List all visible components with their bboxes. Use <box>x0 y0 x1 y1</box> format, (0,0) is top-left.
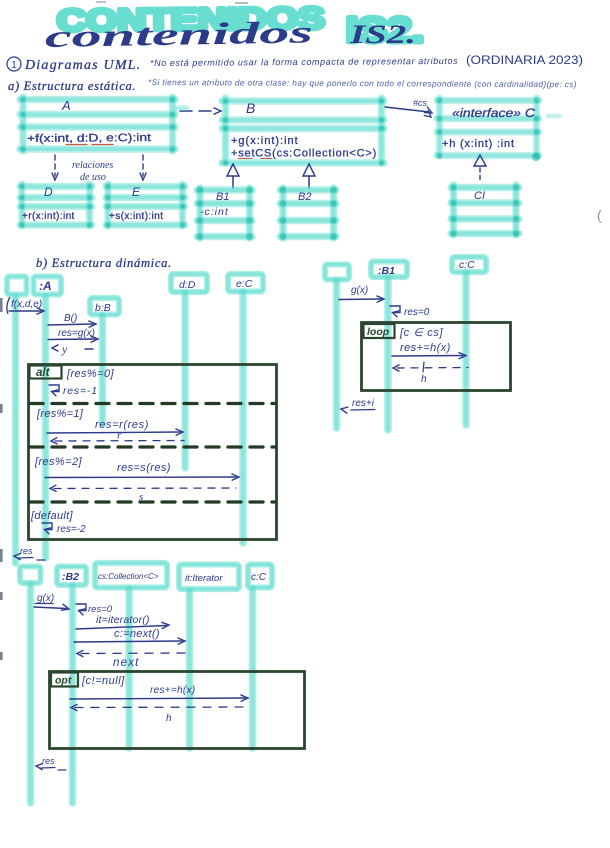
seq3 it lifeline <box>186 591 194 748</box>
seq3 cs:Collection box <box>95 563 167 588</box>
title highlighter CONTENIDOS <box>57 1 424 50</box>
generalization triangle B1 to B <box>227 164 239 188</box>
seq1 return res <box>14 546 45 560</box>
class B2 box <box>280 187 337 240</box>
svg-text:res: res <box>20 546 33 556</box>
seq3 opt fragment frame <box>50 672 305 749</box>
realization triangle under C <box>474 155 486 181</box>
seq1 return s <box>50 485 236 503</box>
seq1 d:D box <box>171 274 207 292</box>
seq2 return h <box>393 362 468 385</box>
class B methods <box>231 135 377 160</box>
class C interface box <box>437 98 539 158</box>
seq1 unnamed actor box <box>7 277 27 295</box>
generalization triangle B2 to B <box>303 164 315 188</box>
seq2 loop fragment frame <box>362 323 511 391</box>
svg-text:cs:Collection<C>: cs:Collection<C> <box>98 572 159 581</box>
svg-text:A: A <box>61 98 71 113</box>
seq3 :B2 box <box>57 567 86 586</box>
class E box <box>105 184 185 228</box>
seq1 alt divider 3 <box>30 500 275 503</box>
svg-text:CI: CI <box>474 190 485 202</box>
seq1 return r <box>51 430 184 444</box>
svg-text:r: r <box>117 430 122 442</box>
class A box <box>20 97 175 152</box>
seq1 e:C lifeline <box>239 292 247 543</box>
seq3 c:C lifeline <box>249 589 257 748</box>
svg-text:B: B <box>246 100 255 116</box>
svg-text:+setCS(cs:Collection<C>): +setCS(cs:Collection<C>) <box>231 148 377 160</box>
seq1 alt fragment frame <box>29 365 277 540</box>
svg-text:h: h <box>421 374 427 385</box>
seq1 message B() create <box>48 313 96 327</box>
seq1 return y <box>52 342 93 356</box>
seq1 message res=s(res) <box>45 462 239 480</box>
seq2 return res+i <box>341 398 375 413</box>
seq1 alt divider 2 <box>30 445 275 448</box>
svg-text:loop: loop <box>367 326 390 338</box>
svg-text:de uso: de uso <box>80 172 106 183</box>
seq3 unnamed lifeline <box>27 584 35 803</box>
marker smudge right of A <box>177 105 187 111</box>
svg-text:h: h <box>166 713 172 724</box>
svg-text:1: 1 <box>11 60 17 71</box>
svg-text:res=g(x): res=g(x) <box>58 328 95 339</box>
seq3 cs lifeline <box>125 589 133 748</box>
svg-text:+f(x:int, d:D, e:C):int: +f(x:int, d:D, e:C):int <box>27 132 151 145</box>
svg-text:#cs: #cs <box>413 98 428 108</box>
title pen contenidos IS2 <box>45 14 416 54</box>
svg-text:res=r(res): res=r(res) <box>95 419 149 431</box>
class B box <box>222 98 384 166</box>
svg-text:e:C: e:C <box>236 278 253 290</box>
seq3 message c:=next() <box>74 628 185 644</box>
svg-text:opt: opt <box>55 675 72 687</box>
pencil tick top <box>96 1 106 3</box>
seq2 self message res=0 <box>390 306 430 318</box>
dashed dependency arrow A to B <box>180 108 221 114</box>
svg-text:relaciones: relaciones <box>72 160 113 171</box>
svg-text:D: D <box>44 185 53 199</box>
svg-text:res+=h(x): res+=h(x) <box>150 685 196 696</box>
class CI box <box>451 185 519 237</box>
seq2 message g(x) <box>339 285 384 302</box>
svg-text:g(x): g(x) <box>37 593 54 604</box>
svg-text:it:Iterator: it:Iterator <box>185 573 223 584</box>
seq3 self message res=0 <box>76 604 113 615</box>
class A method +f <box>27 132 151 145</box>
seq1 alt divider 1 <box>30 402 275 405</box>
svg-text:res+i: res+i <box>352 398 375 409</box>
svg-text:B(): B() <box>64 313 77 324</box>
seq1 :A lifeline <box>42 297 50 558</box>
svg-text:IS2.: IS2. <box>349 20 416 49</box>
svg-text:alt: alt <box>36 367 51 379</box>
svg-text:Diagramas UML.: Diagramas UML. <box>24 58 141 73</box>
seq1 unnamed lifeline <box>12 297 20 563</box>
marker smudge right of C <box>548 113 560 119</box>
svg-text:[default]: [default] <box>30 510 73 522</box>
svg-text:+s(x:int):int: +s(x:int):int <box>109 211 163 222</box>
svg-text:d:D: d:D <box>179 279 196 291</box>
svg-text:res+=h(x): res+=h(x) <box>400 342 451 354</box>
svg-text:it=iterator(): it=iterator() <box>96 614 150 626</box>
seq3 message it=iterator() <box>76 614 169 629</box>
seq3 return h <box>71 704 247 724</box>
svg-text:res=0: res=0 <box>404 307 430 318</box>
svg-text:[res%=0]: [res%=0] <box>66 368 114 380</box>
svg-text:res=s(res): res=s(res) <box>117 462 171 474</box>
svg-text:[c!=null]: [c!=null] <box>81 675 125 687</box>
seq3 return next <box>77 650 186 669</box>
svg-text::B2: :B2 <box>62 571 79 583</box>
seq3 unnamed actor box <box>20 567 41 584</box>
svg-text:c:C: c:C <box>459 259 475 271</box>
seq1 self message res=-2 <box>42 523 86 535</box>
svg-text:y: y <box>61 342 68 356</box>
svg-text:+r(x:int):int: +r(x:int):int <box>22 211 75 222</box>
seq1 :A box <box>34 277 62 295</box>
svg-text:a) Estructura estática.: a) Estructura estática. <box>8 79 136 93</box>
svg-text:c:=next(): c:=next() <box>114 628 160 640</box>
seq1 message f(x,d,e) <box>7 297 44 314</box>
dashed use arrow A to E <box>140 155 146 180</box>
seq2 message res+=h(x) <box>392 342 466 359</box>
dashed use arrow A to D <box>52 155 58 180</box>
svg-text:res=-1: res=-1 <box>63 385 98 397</box>
seq2 unnamed actor box <box>325 265 349 280</box>
svg-text:res=-2: res=-2 <box>57 524 86 535</box>
seq2 :B1 lifeline <box>384 278 392 430</box>
label relaciones de uso <box>72 160 113 183</box>
svg-text:(ORDINARIA 2023): (ORDINARIA 2023) <box>466 55 583 67</box>
seq3 c:C box <box>248 565 272 588</box>
seq1 d:D lifeline <box>181 293 189 468</box>
seq1 b:B lifeline <box>99 316 107 424</box>
seq3 message g(x) <box>34 593 69 610</box>
seq3 message res+=h(x) <box>70 685 248 701</box>
svg-text:c:C: c:C <box>251 572 267 583</box>
svg-text:[res%=1]: [res%=1] <box>36 408 84 420</box>
seq1 message res=g(x) <box>48 328 98 342</box>
item 1 Diagramas UML <box>7 57 141 73</box>
svg-text:«interface» C: «interface» C <box>452 108 536 120</box>
svg-text:contenidos: contenidos <box>45 14 314 54</box>
svg-text:-c:int: -c:int <box>200 206 229 218</box>
seq3 :B2 lifeline <box>69 586 77 803</box>
svg-text:E: E <box>132 185 141 199</box>
svg-text:+g(x:int):int: +g(x:int):int <box>231 135 299 147</box>
seq1 self message res=-1 <box>49 385 98 397</box>
svg-text:g(x): g(x) <box>351 285 368 296</box>
svg-text::A: :A <box>39 279 52 293</box>
svg-text:[c ∈ cs]: [c ∈ cs] <box>399 327 443 339</box>
seq1 message res=r(res) <box>47 419 183 435</box>
svg-text:+h (x:int) :int: +h (x:int) :int <box>442 138 515 150</box>
seq3 it:Iterator box <box>179 565 239 590</box>
seq1 e:C box <box>228 274 263 292</box>
svg-text:(: ( <box>597 207 602 223</box>
association arrow B to C label #cs <box>385 98 432 117</box>
scan edge artifacts <box>0 298 3 660</box>
seq3 return res <box>36 756 66 770</box>
class B1 box <box>197 187 253 240</box>
svg-text:B2: B2 <box>298 191 311 203</box>
svg-text:b) Estructura dinámica.: b) Estructura dinámica. <box>36 256 172 270</box>
seq2 unnamed lifeline <box>333 281 341 428</box>
class D box <box>19 184 92 228</box>
seq2 c:C lifeline <box>462 273 470 425</box>
svg-text:res: res <box>42 756 55 766</box>
seq1 b:B created box <box>90 298 119 315</box>
svg-text:B1: B1 <box>216 191 229 203</box>
seq2 :B1 box <box>371 262 407 278</box>
svg-text:next: next <box>113 657 140 669</box>
seq2 c:C box <box>452 257 486 272</box>
svg-text:[res%=2]: [res%=2] <box>34 456 82 468</box>
